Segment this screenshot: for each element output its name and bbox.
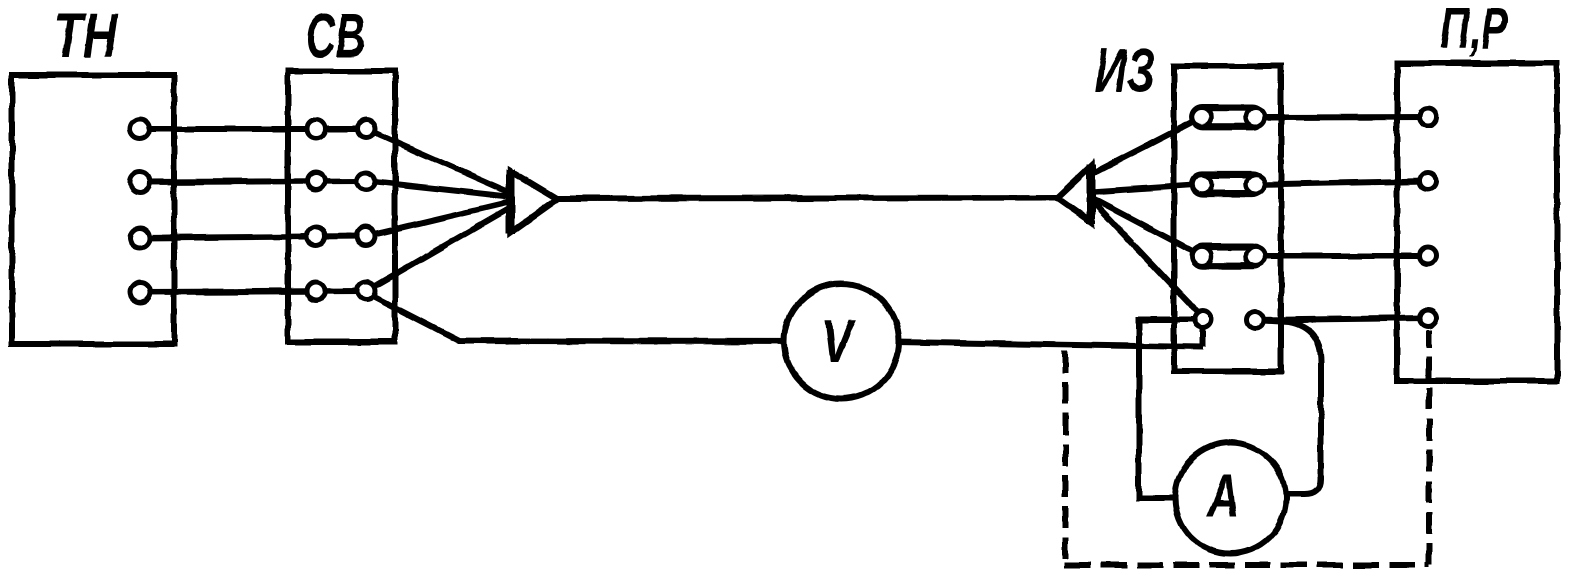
svg-text:ИЗ: ИЗ <box>1095 37 1155 106</box>
svg-text:V: V <box>821 307 856 375</box>
dashed boundary right edge <box>1426 330 1432 565</box>
wire main line between arrows <box>555 198 1058 199</box>
wire fan CB row2 to cable arrow <box>366 181 513 197</box>
wire row1 TH-CB <box>140 126 366 132</box>
terminal TH row1 <box>130 119 150 139</box>
terminal CB right row1 <box>357 120 375 138</box>
wire fan CB row3 to cable arrow <box>366 201 513 236</box>
svg-text:П,Р: П,Р <box>1440 0 1508 61</box>
fuse F2 body <box>1192 174 1263 195</box>
wire fan arrow to fuse row2 <box>1090 185 1202 193</box>
terminal PR row2 <box>1420 173 1437 190</box>
terminal TH row3 <box>130 228 150 248</box>
dashed boundary left edge <box>1062 351 1068 565</box>
fuse F1 body <box>1192 107 1263 128</box>
wire fan CB row1 to cable arrow <box>366 129 513 194</box>
wire from IZ lower-right terminal down to ammeter <box>1255 320 1321 494</box>
wire row3 TH-CB <box>140 236 366 238</box>
wire step from IZ lower-left terminal down to ammeter <box>1139 320 1202 499</box>
box IZ (ИЗ test block) <box>1174 66 1281 371</box>
fuse F2 terminal left <box>1193 175 1212 194</box>
terminal CB right row3 <box>357 227 375 245</box>
wire fan arrow to fuse row1 <box>1092 118 1202 175</box>
terminal IZ lower-right <box>1247 312 1264 329</box>
wire fan CB row4 to cable arrow <box>366 206 513 291</box>
terminal TH row4 <box>130 282 150 302</box>
wire stub up to IZ lower-left terminal <box>1200 319 1206 347</box>
svg-text:ТН: ТН <box>54 1 118 71</box>
voltmeter V circle <box>784 284 899 399</box>
terminal CB right row4 <box>357 282 375 300</box>
wire fuse row2 to PR <box>1255 181 1428 185</box>
svg-text:СВ: СВ <box>306 2 365 71</box>
terminal CB right row2 <box>357 172 375 190</box>
fuse F3 terminal left <box>1193 247 1212 266</box>
wire IZ lower-right terminal to PR <box>1255 318 1428 320</box>
fuse F2 terminal right <box>1246 175 1265 194</box>
terminal IZ lower-left <box>1194 311 1211 328</box>
ammeter A circle <box>1175 443 1286 554</box>
box TH (transformer ТН) <box>12 75 174 344</box>
cable arrow left (right-pointing triangle) <box>511 169 558 234</box>
terminal CB left row3 <box>307 227 325 245</box>
svg-text:А: А <box>1205 463 1240 530</box>
wire row2 TH-CB <box>140 181 366 182</box>
terminal TH row2 <box>130 172 150 192</box>
terminal PR row3 <box>1420 248 1437 265</box>
dashed boundary bottom edge <box>1065 562 1429 568</box>
fuse F3 body <box>1192 246 1263 267</box>
terminal PR row4 <box>1420 310 1437 327</box>
wire fan arrow to IZ lower-left terminal <box>1092 201 1204 319</box>
wire CB row4 down to voltmeter line <box>366 293 1203 347</box>
box PR (П,Р panel) <box>1397 63 1557 381</box>
wire row4 TH-CB <box>140 291 366 292</box>
fuse F3 terminal right <box>1246 247 1265 266</box>
wire fuse row1 to PR <box>1255 114 1428 121</box>
cable arrow right (left-pointing triangle) <box>1057 165 1091 224</box>
terminal CB left row1 <box>307 120 325 138</box>
terminal PR row1 <box>1420 109 1437 126</box>
wire fan arrow to fuse row3 <box>1090 197 1202 256</box>
terminal CB left row2 <box>307 172 325 190</box>
wire fuse row3 to PR <box>1255 253 1428 259</box>
fuse F1 terminal left <box>1193 108 1212 127</box>
terminal CB left row4 <box>307 282 325 300</box>
box CB (СВ terminal block) <box>288 71 395 342</box>
fuse F1 terminal right <box>1246 108 1265 127</box>
